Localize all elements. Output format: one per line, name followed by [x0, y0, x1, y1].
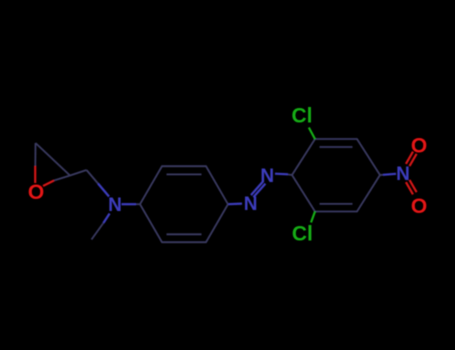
svg-text:O: O: [28, 181, 44, 204]
azo N=N double bond line 1: [253, 184, 265, 198]
ring1 inner double bond top: [167, 173, 202, 175]
svg-text:O: O: [411, 195, 427, 218]
epoxide O-C2 bond dark half: [54, 176, 70, 181]
bond ring2 to nitro dark stub: [380, 174, 383, 176]
benzene ring 2: [292, 139, 380, 212]
bond CH2-N dark half: [87, 170, 99, 184]
bond N1 to ring1 dark stub: [136, 203, 140, 205]
svg-text:O: O: [411, 135, 427, 158]
epoxide O-C2 bond red half: [43, 181, 54, 187]
bond CH2-N blue half: [98, 184, 109, 197]
epoxide C1-C2 bond: [36, 143, 71, 176]
benzene ring 1: [140, 166, 228, 242]
nitro N=O lower double bond line 2: [410, 180, 417, 192]
bond ring2 to nitro N blue: [383, 174, 396, 175]
bond C2-CH2: [70, 170, 87, 176]
nitro N=O lower double bond line 1: [406, 182, 413, 194]
bond ring1 to azo N2 blue: [229, 203, 243, 206]
svg-text:Cl: Cl: [292, 223, 313, 246]
svg-text:N: N: [260, 166, 274, 187]
ring2 inner double bond top: [320, 146, 353, 148]
epoxide O-C1 bond red half: [34, 166, 36, 183]
svg-text:N: N: [108, 195, 122, 216]
ring1 inner double bond bottom: [167, 233, 202, 235]
bond N3 to ring2 blue: [275, 173, 288, 176]
methyl bond dark half: [92, 223, 104, 240]
ring2 inner double bond bottom: [320, 203, 353, 205]
svg-text:Cl: Cl: [292, 105, 313, 128]
bond N3 to ring2 dark stub: [288, 174, 292, 177]
svg-text:N: N: [244, 194, 258, 215]
nitro N=O upper double bond line 2: [406, 152, 413, 164]
bond N1 to ring1 blue: [122, 203, 137, 205]
nitro N=O upper double bond line 1: [410, 154, 417, 166]
methyl bond blue half: [103, 214, 109, 224]
svg-text:N: N: [396, 164, 410, 185]
bond ring2 to top Cl green: [309, 128, 315, 140]
azo N=N double bond line 2: [251, 182, 263, 196]
epoxide O-C1 bond dark half: [34, 143, 36, 166]
bond ring2 to bottom Cl green: [311, 212, 315, 223]
